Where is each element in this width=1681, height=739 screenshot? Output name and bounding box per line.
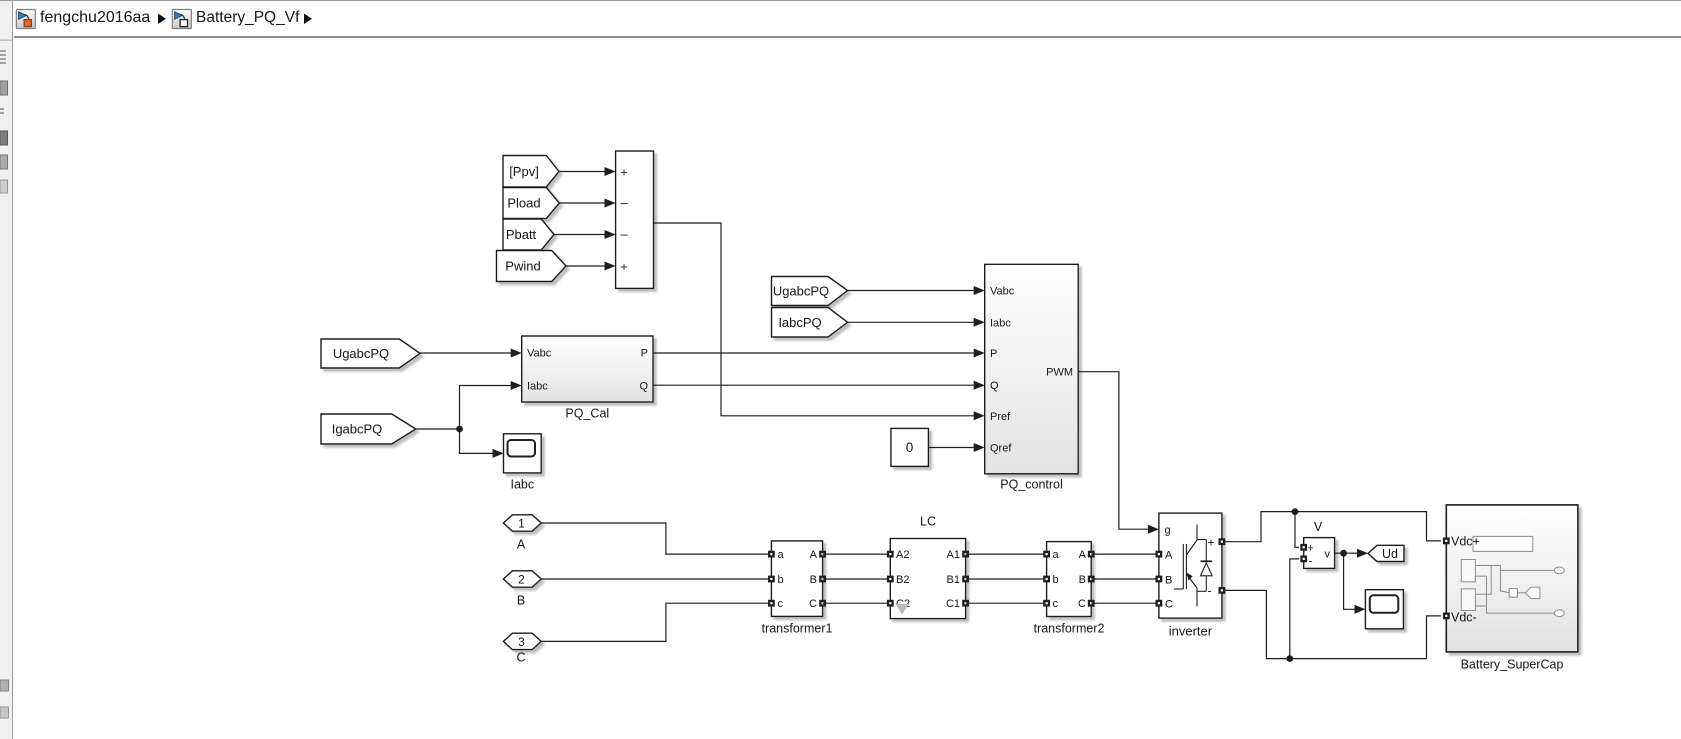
wire junction to V plus xyxy=(1295,512,1299,548)
wire UgabcPQ to PQ_control Vabc xyxy=(848,286,985,295)
breadcrumb text fengchu2016aa xyxy=(40,9,150,27)
breadcrumb model icon 1 xyxy=(16,10,35,29)
svg-text:Pload: Pload xyxy=(507,196,540,211)
svg-text:IabcPQ: IabcPQ xyxy=(778,315,821,330)
svg-text:Vabc: Vabc xyxy=(527,348,552,360)
svg-text:B: B xyxy=(810,574,817,586)
svg-text:0: 0 xyxy=(906,440,914,455)
node junction V output xyxy=(1340,550,1347,557)
svg-text:c: c xyxy=(778,598,784,610)
svg-text:PQ_Cal: PQ_Cal xyxy=(565,407,609,421)
wire transformer1 A to LC A2 xyxy=(823,553,891,555)
subsystem PQ_Cal xyxy=(522,336,653,421)
svg-text:Battery_SuperCap: Battery_SuperCap xyxy=(1461,658,1564,672)
breadcrumb subsystem icon 2 xyxy=(172,10,191,29)
svg-text:[Ppv]: [Ppv] xyxy=(509,164,539,179)
wire inport 1 to transformer1 a xyxy=(541,523,771,554)
svg-text:B2: B2 xyxy=(896,574,909,586)
left tool strip xyxy=(0,1,13,739)
wire junction to scope Iabc xyxy=(460,429,504,458)
svg-text:Pbatt: Pbatt xyxy=(506,227,537,242)
svg-text:A: A xyxy=(1079,549,1087,561)
from tag Pbatt xyxy=(503,219,554,250)
svg-text:C: C xyxy=(1165,599,1173,611)
svg-text:+: + xyxy=(621,166,628,180)
from tag UgabcPQ right xyxy=(772,277,848,306)
wire LC C1 to transformer2 c xyxy=(966,602,1047,604)
svg-text:Vabc: Vabc xyxy=(990,286,1015,298)
scope2 xyxy=(1365,590,1403,629)
wire Pwind to sum xyxy=(566,262,616,271)
svg-text:PWM: PWM xyxy=(1046,367,1073,379)
svg-text:A1: A1 xyxy=(947,549,960,561)
svg-text:Q: Q xyxy=(639,381,648,393)
inport 2 label B xyxy=(517,594,525,608)
inverter port squares xyxy=(1156,538,1226,606)
wire PQ_Cal P to PQ_control P xyxy=(653,349,985,358)
transformer2 port squares xyxy=(1043,551,1094,607)
subsystem PQ_control xyxy=(985,264,1078,491)
svg-text:P: P xyxy=(641,348,648,360)
wire IabcPQ to PQ_control Iabc xyxy=(848,318,985,327)
wire inverter minus to Vdc- xyxy=(1225,590,1441,658)
wire UgabcPQ to PQ_Cal Vabc xyxy=(420,349,522,358)
svg-text:IgabcPQ: IgabcPQ xyxy=(332,422,383,437)
wire junction to Ud xyxy=(1344,549,1368,558)
chrome top line xyxy=(0,0,1681,1)
svg-text:B: B xyxy=(1165,574,1172,586)
voltage measurement V xyxy=(1304,520,1335,568)
svg-text:UgabcPQ: UgabcPQ xyxy=(333,346,389,361)
wire transformer2 C to inverter C xyxy=(1091,602,1159,604)
wire Ppv to sum xyxy=(559,167,616,176)
constant 0 xyxy=(891,428,929,466)
svg-text:transformer2: transformer2 xyxy=(1034,622,1105,636)
svg-text:–: – xyxy=(621,227,629,242)
svg-text:A: A xyxy=(1165,550,1173,562)
Battery_SuperCap port labels xyxy=(1451,535,1563,672)
svg-text:UgabcPQ: UgabcPQ xyxy=(773,284,829,299)
sum block xyxy=(616,151,654,288)
svg-text:A: A xyxy=(517,538,526,552)
block LC xyxy=(890,515,965,619)
breadcrumb arrow 2 xyxy=(304,14,312,25)
svg-text:Vdc-: Vdc- xyxy=(1451,611,1477,625)
wire sum output to Pref xyxy=(654,223,985,420)
svg-text:b: b xyxy=(1053,574,1059,586)
from tag IabcPQ xyxy=(772,308,848,338)
svg-text:V: V xyxy=(1314,520,1323,534)
svg-text:Iabc: Iabc xyxy=(510,478,534,492)
svg-text:g: g xyxy=(1165,525,1171,537)
svg-text:3: 3 xyxy=(518,635,525,649)
LC port squares xyxy=(887,551,969,607)
from tag [Ppv] xyxy=(503,156,559,188)
breadcrumb text Battery_PQ_Vf xyxy=(196,9,299,27)
Battery_SuperCap port squares xyxy=(1443,538,1450,620)
svg-text:Pwind: Pwind xyxy=(505,259,540,274)
LC gray badge triangle xyxy=(896,604,910,615)
left strip icon marks xyxy=(0,40,13,719)
wire IgabcPQ to junction xyxy=(416,428,460,430)
block transformer1 xyxy=(762,541,833,636)
wire PQ_Cal Q to PQ_control Q xyxy=(653,381,985,390)
breadcrumb arrow 1 xyxy=(158,14,166,25)
Battery_SuperCap thumbnail sketch xyxy=(1461,536,1564,616)
svg-text:PQ_control: PQ_control xyxy=(1000,478,1063,492)
wire transformer2 B to inverter B xyxy=(1091,578,1159,580)
svg-text:Vdc+: Vdc+ xyxy=(1451,535,1480,549)
V port squares xyxy=(1300,544,1307,562)
node junction minus rail xyxy=(1286,655,1293,662)
svg-text:c: c xyxy=(1053,598,1059,610)
svg-text:+: + xyxy=(1208,536,1215,550)
goto tag Ud xyxy=(1368,545,1404,561)
svg-text:C: C xyxy=(516,651,525,665)
svg-text:C1: C1 xyxy=(946,598,960,610)
from tag UgabcPQ left xyxy=(321,339,420,368)
wire junction to PQ_Cal Iabc xyxy=(460,381,522,429)
node junction IgabcPQ xyxy=(456,426,463,433)
svg-text:1: 1 xyxy=(518,517,525,531)
svg-text:Pref: Pref xyxy=(990,411,1011,423)
wire LC A1 to transformer2 a xyxy=(966,553,1047,555)
inport 3 label C xyxy=(516,651,525,665)
scope Iabc xyxy=(504,434,542,492)
svg-text:v: v xyxy=(1325,549,1331,561)
transformer1 port squares xyxy=(768,551,826,607)
svg-text:B1: B1 xyxy=(947,574,960,586)
svg-text:C: C xyxy=(1078,598,1086,610)
wire Pbatt to sum xyxy=(554,230,616,239)
block transformer2 xyxy=(1034,542,1105,636)
svg-text:Qref: Qref xyxy=(990,443,1012,455)
svg-text:-: - xyxy=(1309,556,1313,568)
svg-text:LC: LC xyxy=(920,515,936,529)
svg-text:2: 2 xyxy=(518,573,525,587)
wire junction to V minus xyxy=(1290,559,1299,659)
inport 2 xyxy=(503,571,541,587)
wire inport 3 to transformer1 c xyxy=(541,603,771,641)
svg-text:Iabc: Iabc xyxy=(990,317,1011,329)
breadcrumb bar xyxy=(14,1,1681,38)
wire transformer1 B to LC B2 xyxy=(823,578,891,580)
wire PWM to inverter g xyxy=(1078,372,1159,534)
wire V output to junction xyxy=(1335,552,1344,554)
from tag Pwind xyxy=(497,251,567,282)
svg-text:Iabc: Iabc xyxy=(527,381,548,393)
svg-text:Ud: Ud xyxy=(1382,547,1398,561)
svg-text:transformer1: transformer1 xyxy=(762,622,833,636)
wire inverter plus to Vdc+ xyxy=(1225,512,1441,542)
svg-text:Q: Q xyxy=(990,380,999,392)
wire transformer2 A to inverter A xyxy=(1091,553,1159,555)
svg-text:–: – xyxy=(621,195,629,210)
svg-text:A: A xyxy=(810,549,818,561)
node junction plus rail xyxy=(1292,508,1299,515)
block inverter xyxy=(1159,513,1222,638)
svg-text:b: b xyxy=(778,574,784,586)
inport 1 xyxy=(503,515,541,531)
wire junction to scope2 xyxy=(1344,553,1366,614)
wire transformer1 C to LC C2 xyxy=(823,602,891,604)
inverter IGBT diode symbol xyxy=(1174,525,1212,607)
inport 3 xyxy=(503,633,541,649)
wire inport 2 to transformer1 b xyxy=(541,578,771,580)
subsystem Battery_SuperCap xyxy=(1446,505,1578,652)
svg-text:B: B xyxy=(1079,574,1086,586)
svg-text:inverter: inverter xyxy=(1169,624,1213,639)
svg-text:A2: A2 xyxy=(896,549,909,561)
svg-text:a: a xyxy=(1053,549,1060,561)
wire Pload to sum xyxy=(559,199,615,208)
svg-text:C: C xyxy=(809,598,817,610)
svg-text:+: + xyxy=(1308,543,1314,555)
wire constant 0 to Qref xyxy=(928,443,984,452)
svg-text:+: + xyxy=(621,260,628,274)
from tag IgabcPQ xyxy=(321,414,416,444)
svg-text:a: a xyxy=(778,549,785,561)
svg-text:-: - xyxy=(1208,584,1212,598)
svg-text:B: B xyxy=(517,594,525,608)
from tag Pload xyxy=(503,188,559,219)
wire LC B1 to transformer2 b xyxy=(966,578,1047,580)
svg-text:P: P xyxy=(990,348,997,360)
inport 1 label A xyxy=(517,538,526,552)
